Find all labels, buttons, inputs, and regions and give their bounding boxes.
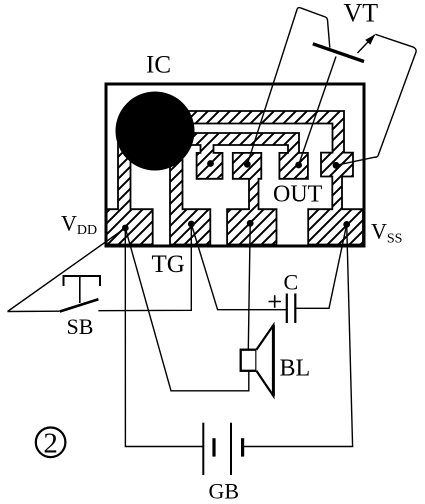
column A with bottom pad 1 VDD (hatched) xyxy=(106,138,153,245)
capacitor plus sign xyxy=(269,295,282,307)
wire pad4 VSS to battery right xyxy=(243,224,353,446)
speaker BL cone xyxy=(256,325,273,396)
battery GB cell1 long plate xyxy=(202,423,204,475)
wire capacitor to pad4 VSS xyxy=(295,224,346,308)
battery GB cell2 short plate xyxy=(241,438,244,456)
wire SB right contact to pad2 TG xyxy=(98,224,191,311)
svg-text:OUT: OUT xyxy=(273,182,323,208)
bond dot bottom pad 4 xyxy=(343,221,350,228)
trace band1 with pad OUT4 and bottom pad 4 VSS (hatched) xyxy=(170,111,363,245)
bond dot small pad 1 xyxy=(207,160,214,167)
transistor VT collector wire to small pad3 xyxy=(299,57,336,166)
svg-text:C: C xyxy=(284,270,299,295)
battery GB cell2 long plate xyxy=(230,423,232,475)
trace band2 with pads OUT1 and OUT3 (hatched) xyxy=(170,133,308,179)
svg-text:BL: BL xyxy=(280,356,311,382)
pushbutton SB bracket xyxy=(64,276,101,286)
pushbutton SB blade xyxy=(60,299,99,311)
column B with bottom pad 2 TG (hatched) xyxy=(170,148,210,245)
transistor VT emitter arrowhead xyxy=(365,34,375,44)
wire small pad2 up to VT base apex xyxy=(247,8,329,165)
speaker BL cone outer edge xyxy=(272,325,275,396)
wire bottom pad3 to speaker BL top xyxy=(248,223,250,349)
figure number circle xyxy=(36,428,66,458)
wire vertex to SB left contact xyxy=(8,310,60,312)
bond dot bottom pad 1 xyxy=(122,225,129,232)
svg-text:TG: TG xyxy=(152,251,185,278)
bond dot bottom pad 2 xyxy=(188,221,195,228)
svg-text:2: 2 xyxy=(43,428,58,460)
wire pad2 TG to capacitor C xyxy=(191,224,286,310)
svg-text:SB: SB xyxy=(67,314,94,339)
wire pad1 to SB vertex xyxy=(8,228,126,312)
bond dot small pad 3 xyxy=(295,162,302,169)
pushbutton SB stem xyxy=(79,277,81,303)
bond dot bottom pad 3 xyxy=(247,220,254,227)
wire VT emitter to small pad4 xyxy=(336,34,416,165)
speaker BL driver rect xyxy=(241,350,257,371)
transistor VT base bar xyxy=(313,44,364,62)
wire battery left to pad1 VDD xyxy=(125,228,203,447)
wire pad1 VDD to speaker BL bottom xyxy=(125,228,249,391)
svg-text:GB: GB xyxy=(209,479,240,504)
pad OUT2 with stub to bottom pad 3 (hatched) xyxy=(227,153,276,245)
svg-text:VT: VT xyxy=(344,0,379,28)
bond dot small pad 4 xyxy=(333,162,340,169)
bond dot small pad 2 xyxy=(244,161,251,168)
svg-text:IC: IC xyxy=(146,52,171,79)
battery GB cell1 short plate xyxy=(212,438,215,456)
IC package body outline xyxy=(106,84,364,246)
chip die (black circle) xyxy=(116,92,195,171)
transistor VT emitter line xyxy=(358,35,375,53)
capacitor C right plate xyxy=(294,294,296,324)
capacitor C left plate xyxy=(286,294,288,324)
